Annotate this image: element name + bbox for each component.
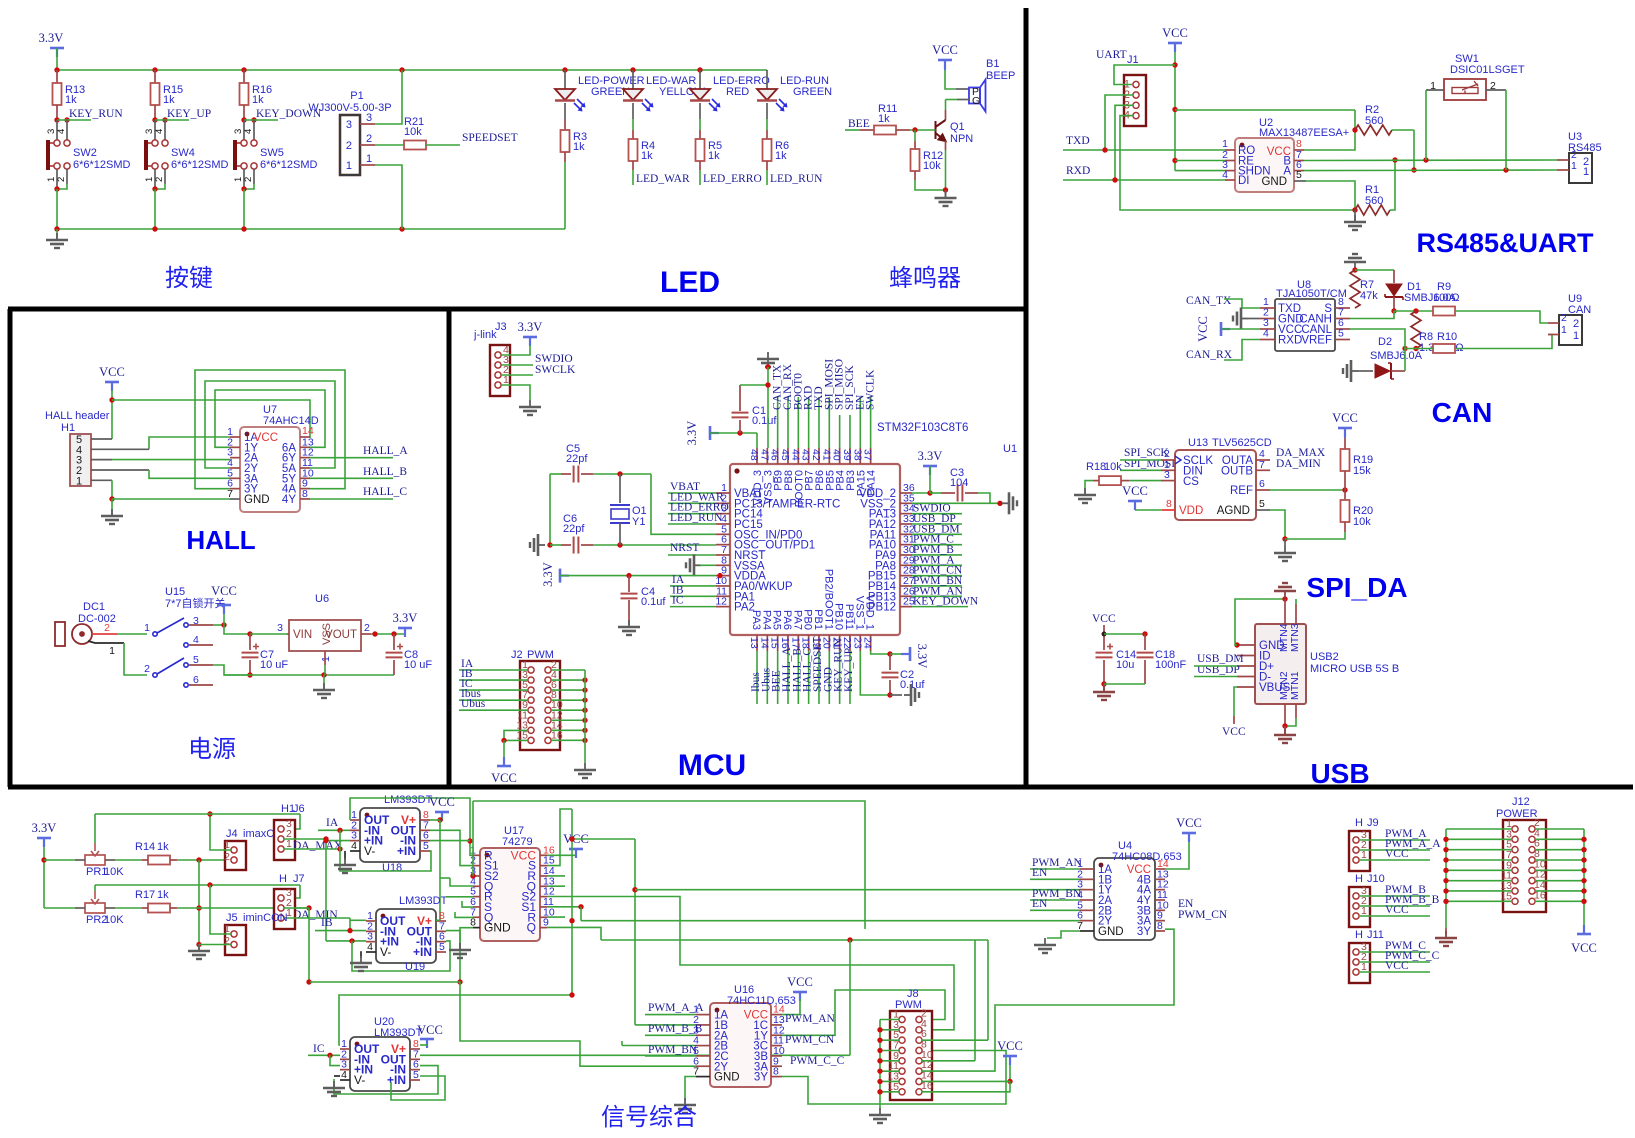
- pin circle SW5: [241, 163, 247, 169]
- wire CAN_RX: [1224, 340, 1260, 361]
- wire J8 left 15: [880, 1091, 899, 1093]
- connector J10: [1349, 887, 1370, 927]
- junction: [399, 67, 404, 72]
- wire U17 S2 up: [472, 801, 474, 876]
- pin 35 U1: [900, 502, 912, 504]
- pin 24 U1: [870, 635, 872, 651]
- pin circle J8 6: [916, 1037, 922, 1043]
- power flag 3.3V C1: [710, 426, 719, 440]
- svg-text:4: 4: [367, 941, 373, 953]
- junction: [1282, 723, 1287, 728]
- wire U20 OUT1 up right: [339, 995, 572, 1045]
- pin: [1155, 889, 1165, 891]
- junction: [323, 836, 328, 841]
- wire J8 p6 up: [987, 940, 989, 1040]
- svg-text:4: 4: [351, 840, 357, 852]
- pin circle J12 5: [1512, 847, 1518, 853]
- svg-text:7: 7: [227, 488, 233, 500]
- svg-text:IC: IC: [672, 595, 684, 607]
- pin 5 U15 stub: [189, 664, 213, 666]
- svg-text:1: 1: [144, 622, 150, 634]
- ground USB top: [1274, 583, 1296, 598]
- svg-text:LED_RUN: LED_RUN: [770, 173, 823, 185]
- wire mtn3: [1295, 599, 1297, 604]
- svg-text:1: 1: [346, 160, 352, 172]
- pin 6 U15 stub: [189, 684, 213, 686]
- wire J3 p1 to gnd: [501, 385, 530, 400]
- wire vdd: [1135, 509, 1162, 511]
- ground U16: [674, 1098, 696, 1113]
- pin 6 U13: [1256, 489, 1270, 491]
- svg-text:1: 1: [1561, 324, 1567, 336]
- wire 3.3V down: [43, 847, 45, 908]
- wire C1 to gnd col: [740, 384, 768, 386]
- pin circle J8 11: [899, 1068, 905, 1074]
- wire canh rail: [1394, 310, 1433, 312]
- dac U13 TLV5625CD: [1175, 450, 1256, 520]
- svg-text:74HC11D,653: 74HC11D,653: [727, 995, 796, 1007]
- svg-text:U6: U6: [315, 593, 329, 605]
- svg-text:1: 1: [109, 645, 115, 657]
- ground J12: [1435, 931, 1457, 946]
- divider line horizontal bottom: [8, 785, 1633, 790]
- LED LED-WAR: [623, 89, 654, 112]
- wire top col SPI_MISO: [839, 415, 841, 448]
- wire SW4 to gnd rail: [154, 189, 156, 229]
- svg-text:R17: R17: [135, 889, 155, 901]
- pin 3 U7: [230, 457, 240, 459]
- svg-text:VSS_1: VSS_1: [853, 596, 865, 630]
- svg-text:EN: EN: [1032, 898, 1048, 910]
- wire SHDN: [1175, 170, 1225, 172]
- svg-text:4: 4: [341, 1069, 347, 1081]
- pin SW2 p2: [66, 169, 68, 184]
- gate U4 74HC08D: [1094, 858, 1155, 940]
- wire IC to +IN3: [330, 1055, 340, 1065]
- wire J2 right 0: [551, 669, 585, 671]
- svg-text:SMBJ6.0A: SMBJ6.0A: [1370, 350, 1423, 362]
- junction: [196, 905, 201, 910]
- pin: [410, 1048, 420, 1050]
- pin circle J9 1: [1353, 857, 1359, 863]
- wire up to J8 net: [849, 940, 851, 1055]
- wire right PWM_AN: [912, 595, 962, 597]
- junction: [152, 117, 157, 122]
- pin 11 U1: [716, 595, 730, 597]
- wire DA_MIN to U16 2Y: [310, 982, 696, 1066]
- wire U7 3Y to 4A loop: [195, 370, 345, 489]
- wire J2 right 1: [551, 679, 585, 681]
- pin: [1155, 920, 1165, 922]
- pin C1 bottom: [739, 420, 741, 433]
- wire U2 vcc to vertical: [1175, 109, 1355, 111]
- pin C3 right: [965, 492, 978, 494]
- ground C4: [618, 620, 640, 635]
- pin: [771, 1065, 782, 1067]
- pin circle J8 4: [916, 1027, 922, 1033]
- wire H1 p2 to U7 3A: [149, 470, 230, 478]
- wire R7 top rail: [1355, 269, 1394, 271]
- pin 46 U1: [777, 448, 779, 464]
- svg-text:LED_RUN: LED_RUN: [670, 512, 723, 524]
- wire U18 -IN6 feedback: [430, 840, 470, 842]
- pin circle J2 14: [545, 727, 551, 733]
- junction: [569, 836, 574, 841]
- power flag VCC power section: [217, 605, 231, 614]
- divider line vertical mcu-left: [447, 309, 452, 787]
- pin: [1155, 868, 1165, 870]
- junction: [877, 1079, 882, 1084]
- wire vdd2 vcc: [929, 466, 931, 493]
- pin 26 U1: [900, 595, 912, 597]
- transistor Q1: [936, 120, 946, 141]
- svg-text:3: 3: [1164, 469, 1170, 481]
- junction: [1101, 681, 1106, 686]
- svg-text:22pf: 22pf: [563, 523, 585, 535]
- pin SW4 p4: [164, 120, 166, 140]
- svg-text:1k: 1k: [775, 150, 787, 162]
- junction: [1282, 596, 1287, 601]
- wire VCC vertical uart: [1174, 52, 1176, 171]
- junction: [152, 226, 157, 231]
- comparator U19: [376, 909, 436, 963]
- pin circle J12 14: [1529, 888, 1535, 894]
- junction: [1172, 158, 1177, 163]
- wire gnd rail power: [224, 674, 394, 676]
- wire c6 row to OSC_OUT: [593, 544, 716, 546]
- wire U7 2Y to 5A loop: [205, 381, 335, 468]
- svg-text:J11: J11: [1367, 929, 1384, 941]
- connector U9: [1559, 315, 1582, 345]
- pin R12 bottom: [914, 171, 916, 180]
- wire PWM_BN U4: [1030, 899, 1080, 901]
- power flag VCC U8: [1221, 322, 1230, 336]
- junction: [1423, 157, 1428, 162]
- connector J8: [890, 1011, 932, 1100]
- wire top col CAN_RX: [787, 397, 789, 448]
- wire J2 right 5: [551, 719, 585, 721]
- pin: [1080, 920, 1094, 922]
- pin circle J1 3: [1133, 102, 1139, 108]
- wire long J8 p6 net: [601, 939, 988, 941]
- wire U15 p3: [213, 624, 224, 626]
- svg-text:Q1: Q1: [950, 121, 965, 133]
- wire REF: [1270, 489, 1345, 491]
- wire U17 GND: [460, 928, 473, 945]
- pin circle J12 8: [1529, 857, 1535, 863]
- pin 45 U1: [787, 448, 789, 464]
- pin 41 U1: [828, 448, 830, 464]
- pin 3 U8: [1260, 328, 1275, 330]
- wire c5 row: [593, 473, 651, 475]
- svg-text:IB: IB: [321, 917, 333, 929]
- wire top col EN: [859, 397, 861, 448]
- wire R1 up: [1390, 160, 1395, 210]
- power flag VCC U16: [793, 992, 807, 1001]
- wire PWM_BN: [645, 1055, 696, 1057]
- wire J12 right 10: [1535, 869, 1584, 871]
- wire U17 R5: [446, 896, 473, 898]
- wire rail J4 J6: [95, 813, 300, 815]
- svg-text:IA: IA: [326, 817, 339, 829]
- junction: [1443, 837, 1448, 842]
- svg-text:USB2: USB2: [1310, 651, 1339, 663]
- svg-text:R14: R14: [135, 841, 155, 853]
- svg-text:HALL header: HALL header: [45, 410, 110, 422]
- svg-text:U15: U15: [165, 586, 185, 598]
- buzzer B1: [969, 80, 986, 112]
- svg-text:PWM_CN: PWM_CN: [785, 1034, 835, 1046]
- junction: [887, 651, 892, 656]
- wire down to 2Y net: [580, 907, 582, 921]
- wire J5 p2: [199, 944, 231, 946]
- wire U20 -IN6 loop: [334, 1066, 438, 1094]
- wire J12 left 1: [1446, 828, 1512, 830]
- pin: [473, 906, 480, 908]
- pin: [350, 819, 360, 821]
- wire U17 S1 11: [547, 906, 581, 908]
- wire vbus stub: [1233, 716, 1235, 724]
- svg-text:H1: H1: [61, 422, 75, 434]
- transceiver U8: [1275, 299, 1335, 351]
- pin 7 U13: [1256, 469, 1270, 471]
- ground rs485: [1344, 215, 1366, 230]
- wire IC: [308, 1054, 340, 1056]
- wire PR2 to R17: [115, 907, 142, 909]
- svg-text:3: 3: [277, 622, 283, 634]
- wire J8 p10: [922, 1060, 975, 1062]
- pin 6 U2: [1294, 170, 1304, 172]
- junction: [877, 1089, 882, 1094]
- pin 1 U3: [1557, 169, 1569, 171]
- wire rail to PR1 wiper: [94, 814, 96, 843]
- svg-text:PB0: PB0: [802, 609, 814, 630]
- wire LED_WAR: [632, 170, 634, 185]
- wire: [890, 694, 902, 696]
- svg-text:SPEEDSET: SPEEDSET: [462, 132, 518, 144]
- svg-text:USB: USB: [1310, 758, 1369, 789]
- wire P1 pin2 to R21: [375, 144, 404, 146]
- junction: [1443, 888, 1448, 893]
- svg-text:POWER: POWER: [1496, 808, 1538, 820]
- wire J6 p1: [284, 848, 340, 850]
- wire SW1 to B: [1425, 90, 1427, 160]
- svg-text:1k: 1k: [65, 94, 77, 106]
- junction: [1392, 157, 1397, 162]
- junction: [437, 817, 442, 822]
- svg-text:HALL_C: HALL_C: [363, 486, 407, 498]
- wire U4 2Y long: [581, 920, 1085, 922]
- power flag VCC U4: [1182, 833, 1196, 842]
- wire EN U4: [1030, 878, 1080, 880]
- pin 4 U19: [366, 951, 376, 953]
- pin 2 U9: [1548, 322, 1559, 324]
- pin 1 U13: [1161, 469, 1175, 471]
- wire V- U20: [334, 1075, 340, 1077]
- pin 12 U7: [300, 457, 310, 459]
- wire c14 bottom: [1103, 660, 1105, 684]
- wire AGND down: [1270, 510, 1285, 539]
- svg-text:14: 14: [758, 637, 770, 649]
- wire vcc: [223, 614, 225, 625]
- svg-text:VCC: VCC: [417, 1023, 443, 1037]
- wire: [339, 848, 341, 850]
- svg-text:2: 2: [56, 177, 67, 182]
- divider line horizontal top-left sections: [8, 307, 1026, 312]
- wire pots common: [198, 860, 200, 945]
- pin 8 U2: [1294, 149, 1304, 151]
- pin LED anode: [564, 70, 566, 89]
- wire J12 right 12: [1535, 880, 1584, 882]
- resistor R17 body: [148, 904, 170, 913]
- pin 33 U1: [900, 523, 912, 525]
- svg-text:100Ω: 100Ω: [1433, 292, 1460, 304]
- pin circle J2 6: [545, 687, 551, 693]
- svg-text:0.1uf: 0.1uf: [900, 679, 925, 691]
- pin: [410, 1079, 420, 1081]
- wire VSS_3 col: [767, 367, 769, 448]
- pin circle J2 4: [545, 677, 551, 683]
- pin circle J2 11: [528, 717, 534, 723]
- switch U15 pin5: [184, 663, 188, 667]
- svg-text:13: 13: [748, 637, 760, 649]
- pin circle SW2: [54, 163, 60, 169]
- wire to VIN: [250, 633, 287, 635]
- wire bot col Ubus: [766, 651, 768, 704]
- pin 2 U1: [716, 502, 730, 504]
- wire bot col HALL_C: [808, 651, 810, 704]
- wire vcc stem: [944, 60, 946, 70]
- wire canl rail: [1405, 348, 1433, 350]
- junction: [927, 490, 932, 495]
- resistor R11: [874, 126, 896, 135]
- svg-text:2: 2: [144, 663, 150, 675]
- svg-text:2: 2: [104, 622, 110, 634]
- junction: [241, 117, 246, 122]
- wire J8 p12 to U4 3Y: [922, 929, 1174, 1071]
- power flag VCC buzzer: [938, 60, 952, 69]
- svg-text:H: H: [1355, 873, 1363, 885]
- wire to U16 1B: [635, 1024, 696, 1026]
- pin 3 U13: [1161, 480, 1175, 482]
- pin: [540, 916, 547, 918]
- pin: [473, 896, 480, 898]
- wire to OSC_IN: [651, 474, 716, 534]
- wire: [766, 69, 768, 71]
- pin: [696, 1024, 710, 1026]
- pin R20 top: [1344, 490, 1346, 500]
- connector J2: [520, 661, 560, 750]
- svg-text:VCC: VCC: [1222, 726, 1246, 738]
- wire C3 down: [978, 493, 990, 503]
- svg-text:MTN1: MTN1: [1289, 671, 1301, 700]
- pin 32 U1: [900, 533, 912, 535]
- wire U17 Q9 down: [547, 927, 601, 940]
- pin 23 U1: [859, 635, 861, 651]
- junction: [109, 397, 114, 402]
- pin 13 U7: [300, 446, 310, 448]
- wire KEY_RUN: [57, 119, 91, 121]
- svg-text:10u: 10u: [1116, 659, 1134, 671]
- capacitor C3: [958, 485, 963, 502]
- pin top R5: [699, 130, 701, 139]
- pin circle J7 2: [278, 905, 284, 911]
- resistor R21: [404, 141, 426, 150]
- wire VCC to U7 pin14: [112, 400, 310, 438]
- wire U16 2B feeder: [622, 1045, 696, 1047]
- pin: [410, 1058, 420, 1060]
- svg-text:8: 8: [1157, 920, 1163, 932]
- wire SW2 to gnd rail: [56, 189, 58, 229]
- ground U6: [313, 683, 335, 698]
- wire top col RXD: [808, 397, 810, 448]
- pin circle J12 7: [1512, 857, 1518, 863]
- junction: [737, 430, 742, 435]
- connector J4: [225, 841, 246, 870]
- pin 1 P1: [360, 164, 375, 166]
- pin circle SW4: [162, 140, 168, 146]
- wire TXD: [1063, 149, 1225, 151]
- wire to C7: [249, 634, 251, 650]
- wire R14 to J4: [177, 859, 231, 861]
- junction: [196, 942, 201, 947]
- svg-text:CS: CS: [1183, 476, 1199, 488]
- wire PWM_B_B: [645, 1034, 696, 1036]
- pin C2 bottom: [889, 680, 891, 695]
- wire EN U4 2: [1030, 909, 1080, 911]
- wire R21 to SPEEDSET: [426, 144, 460, 146]
- pin 6 U1: [716, 544, 730, 546]
- junction: [207, 882, 212, 887]
- connector J1: [1124, 75, 1146, 126]
- svg-text:AGND: AGND: [1217, 505, 1250, 517]
- pin circle J12 11: [1512, 878, 1518, 884]
- pin: [340, 1048, 350, 1050]
- junction: [765, 382, 770, 387]
- junction: [1581, 847, 1586, 852]
- wire U7 1Y to 6A loop: [215, 390, 325, 447]
- pin circle J12 16: [1529, 898, 1535, 904]
- svg-text:PWM_BN: PWM_BN: [648, 1044, 698, 1056]
- wire U2 gnd: [1306, 181, 1355, 210]
- wire U19 OUT7 down: [446, 931, 460, 982]
- pin VBUS USB2: [1237, 686, 1255, 688]
- pin LED anode: [632, 70, 634, 89]
- svg-text:VDD_1: VDD_1: [864, 595, 876, 630]
- wire net B: [1304, 159, 1557, 162]
- svg-text:CAN_TX: CAN_TX: [1186, 295, 1232, 307]
- pin circle SW4: [162, 163, 168, 169]
- svg-text:39: 39: [841, 449, 853, 461]
- LED LED-RUN: [757, 89, 788, 112]
- wire V- gnd: [344, 851, 346, 860]
- svg-text:VCC: VCC: [932, 43, 958, 57]
- junction: [391, 631, 396, 636]
- resistor R2: [1355, 125, 1392, 135]
- svg-text:VCC: VCC: [997, 1039, 1023, 1053]
- u4 dot: [1099, 863, 1104, 868]
- wire U18 OUT1 to U17 R1: [350, 798, 473, 855]
- pin: [696, 1065, 710, 1067]
- svg-text:PA6: PA6: [781, 610, 793, 630]
- pin R14 right: [170, 859, 177, 861]
- wire J11 VCC: [1359, 971, 1430, 973]
- junction: [327, 1053, 332, 1058]
- wire vcc c14: [1103, 625, 1105, 650]
- junction: [562, 67, 567, 72]
- pin circle J8 7: [899, 1047, 905, 1053]
- wire J2 Ubus: [459, 709, 528, 711]
